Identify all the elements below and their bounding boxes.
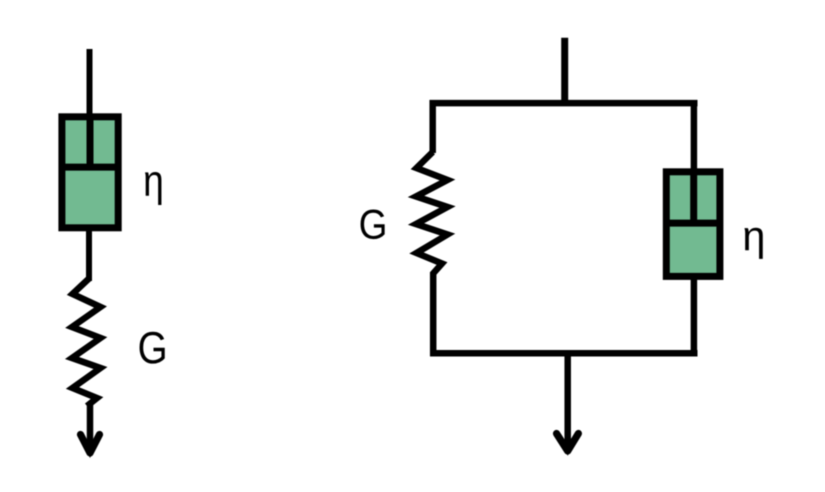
wire left branch lower <box>430 272 437 356</box>
arrowhead bottom right model <box>557 434 579 452</box>
wire right branch lower <box>691 276 698 356</box>
wire shaft to arrow <box>87 404 94 451</box>
dashpot D2 piston plate <box>664 220 724 227</box>
wire top rail <box>430 100 698 107</box>
spring S1 zigzag <box>72 279 101 407</box>
wire bottom stub <box>564 352 571 449</box>
label eta (right dashpot) <box>744 228 762 259</box>
wire bottom rail <box>430 350 698 357</box>
dashpot D1 piston rod <box>87 116 94 167</box>
spring S2 zigzag <box>416 152 448 274</box>
arrowhead bottom left model <box>81 435 100 454</box>
wire right branch upper <box>691 100 698 170</box>
wire between dashpot and spring <box>86 227 92 281</box>
wire top lead right model <box>561 38 568 104</box>
label G (right spring) <box>361 210 385 240</box>
dashpot D2 body <box>666 172 720 277</box>
label eta (left dashpot) <box>145 172 161 205</box>
dashpot D1 body <box>62 117 118 228</box>
label G (left spring) <box>140 332 165 364</box>
dashpot D2 piston rod <box>690 170 697 223</box>
dashpot D1 piston plate <box>59 164 121 171</box>
wire top lead left model <box>87 49 93 117</box>
wire left branch upper <box>429 100 436 153</box>
